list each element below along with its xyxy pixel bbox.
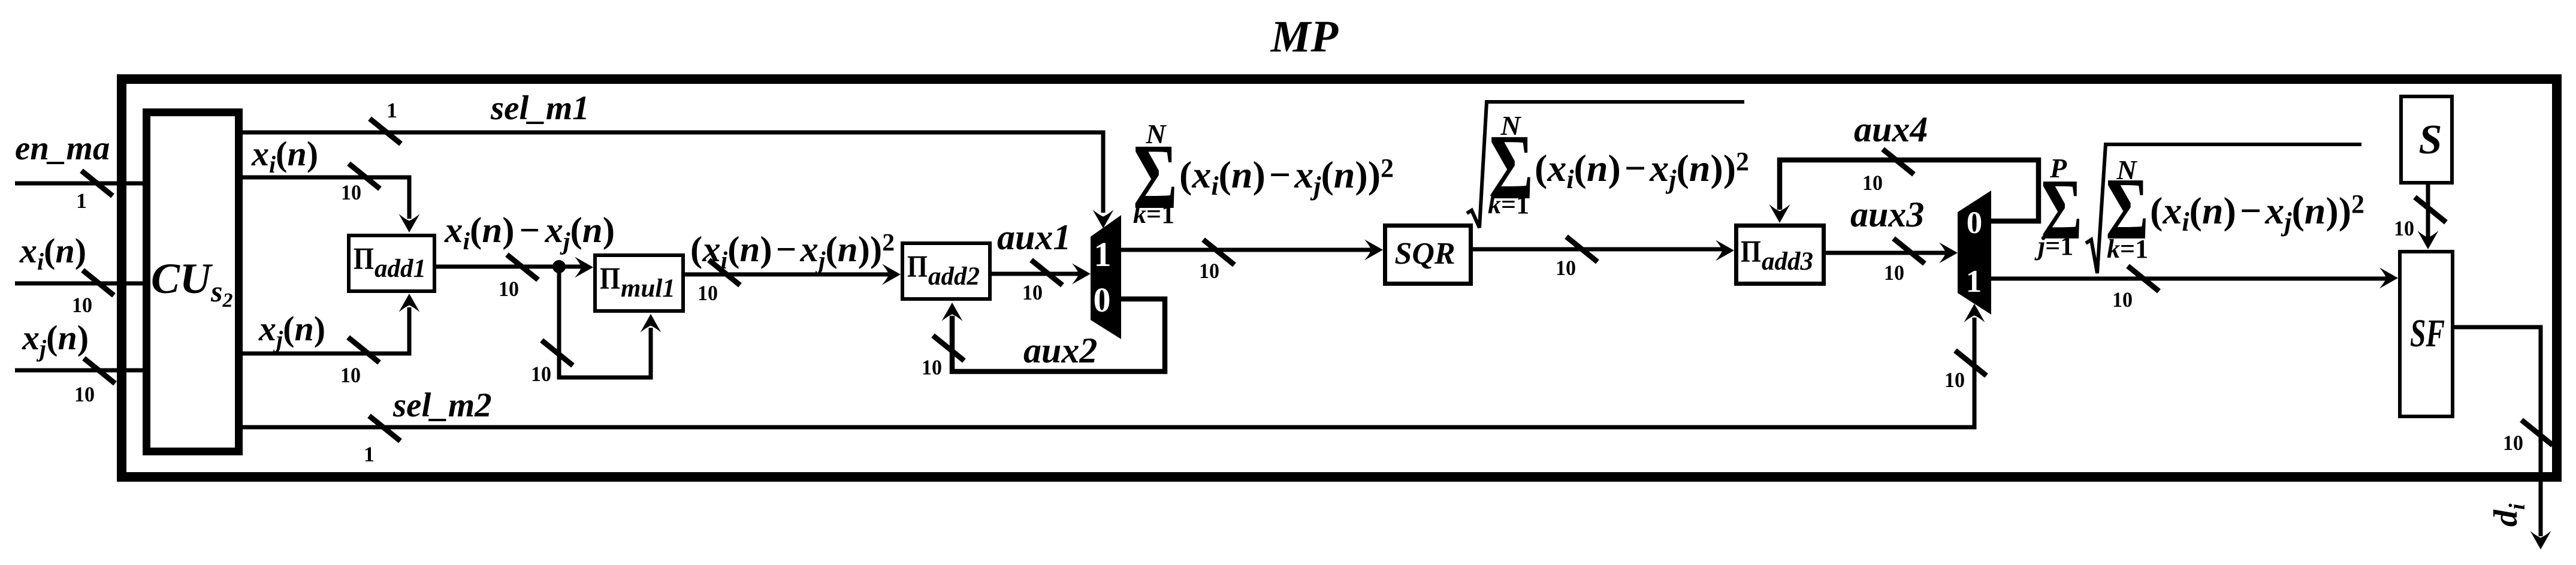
- wire d_i output from SF: [2454, 327, 2551, 549]
- svg-text:10: 10: [922, 355, 942, 379]
- svg-text:aux3: aux3: [1850, 195, 1924, 234]
- svg-text:N: N: [2116, 155, 2137, 185]
- svg-text:1: 1: [1966, 264, 1982, 299]
- label sel_m1: [490, 89, 590, 127]
- wire aux1 Pi_add2 output to demux M1: [992, 264, 1091, 285]
- wire demux M2 output 1 to SF: [1991, 268, 2398, 289]
- bus width 10 (x_j internal): [340, 363, 361, 387]
- svg-text:sel_m2: sel_m2: [392, 386, 492, 424]
- label x_j(n) internal: [258, 309, 325, 353]
- bus slash sel_m1: [370, 119, 401, 144]
- wire en_ma input: [15, 182, 146, 186]
- label (x_i(n) - x_j(n))^2: [690, 228, 895, 274]
- block S: [2401, 96, 2452, 183]
- bus width 10 (SQR output): [1556, 256, 1576, 280]
- label formula sum over j of sqrt: [2034, 144, 2364, 273]
- bus width 10 (aux4): [1862, 171, 1883, 195]
- svg-text:Π: Π: [907, 250, 928, 284]
- bus width 10 (sel_m2 vertical): [1944, 368, 1965, 392]
- svg-text:Π: Π: [600, 262, 620, 296]
- label MP title: [1270, 12, 1339, 62]
- bus width 10 (Pi_add1 output): [499, 277, 519, 301]
- label en_ma: [15, 129, 110, 167]
- svg-text:xi(n): xi(n): [19, 231, 86, 275]
- bus slash aux3: [1894, 238, 1925, 264]
- label formula sqrt of sum: [1467, 102, 1749, 228]
- label aux2: [1023, 331, 1097, 370]
- bus slash x_i input: [83, 270, 114, 295]
- bus width 10 (x_i internal): [341, 180, 361, 204]
- svg-text:xi(n): xi(n): [251, 134, 318, 178]
- label aux3: [1850, 195, 1924, 234]
- svg-text:MP: MP: [1270, 12, 1339, 62]
- wire demux M1 output 1 to SQR: [1121, 240, 1383, 261]
- bus width 1 (sel_m2): [364, 442, 375, 466]
- wire x_i(n) input: [15, 282, 146, 286]
- bus slash sel_m2 vertical: [1955, 351, 1986, 376]
- bus width 10 (Pi_mul1 output): [697, 281, 718, 305]
- bus width 10 (aux1): [1022, 280, 1043, 304]
- wire aux3 Pi_add3 output to demux M2: [1826, 243, 1958, 264]
- square-root block SQR: [1385, 226, 1471, 284]
- label x_i(n) input: [19, 231, 86, 275]
- bus width 10 (x_i input): [72, 293, 92, 317]
- bus width 10 (aux2): [922, 355, 942, 379]
- bus slash Pi_mul1 feedback: [542, 340, 573, 365]
- svg-text:10: 10: [531, 362, 551, 386]
- bus slash aux2: [933, 336, 964, 361]
- wire S to SF: [2418, 185, 2439, 249]
- svg-text:1: 1: [364, 442, 375, 466]
- wire sel_m2 from CU to demux M2 select: [239, 304, 1985, 427]
- svg-text:10: 10: [2112, 288, 2133, 312]
- wire Pi_mul1 output to Pi_add2: [685, 264, 901, 285]
- demux M2 (sel_m2): [1958, 191, 1991, 315]
- svg-text:S: S: [2419, 117, 2442, 163]
- bus width 10 (demux M1 output): [1199, 259, 1219, 283]
- subtractor Pi_add1: [349, 235, 434, 291]
- wire aux2 demux M1 output 0 back to Pi_add2: [942, 299, 1165, 371]
- svg-text:add1: add1: [375, 255, 426, 283]
- bus slash sel_m2: [369, 416, 400, 441]
- bus slash Pi_mul1 output: [709, 260, 740, 285]
- label x_j(n) input: [22, 318, 89, 362]
- wire x_i(n) CU to Pi_add1 top: [239, 177, 420, 232]
- bus slash S to SF: [2415, 197, 2446, 222]
- bus width 10 (d_i): [2503, 431, 2523, 455]
- svg-text:0: 0: [1094, 280, 1111, 319]
- bus slash demux M1 output: [1203, 240, 1234, 265]
- svg-text:N: N: [1500, 110, 1521, 141]
- bus slash d_i: [2521, 420, 2553, 445]
- svg-text:0: 0: [1967, 206, 1983, 240]
- svg-text:k=1: k=1: [1488, 190, 1529, 219]
- bus slash demux M2 output: [2128, 266, 2159, 291]
- label x_i(n) internal: [251, 134, 318, 178]
- svg-text:10: 10: [2503, 431, 2523, 455]
- svg-text:10: 10: [74, 382, 95, 406]
- svg-text:j=1: j=1: [2034, 231, 2073, 261]
- svg-text:1: 1: [1094, 235, 1112, 274]
- label x_i(n) - x_j(n): [444, 210, 615, 255]
- svg-text:SF: SF: [2410, 312, 2445, 355]
- bus width 10 (Pi_mul1 feedback): [531, 362, 551, 386]
- wire x_j(n) CU to Pi_add1 bottom: [239, 294, 420, 353]
- svg-text:10: 10: [1862, 171, 1883, 195]
- svg-text:Π: Π: [1741, 235, 1761, 269]
- svg-text:10: 10: [340, 363, 361, 387]
- control unit CU_s2: [147, 113, 239, 452]
- svg-text:sel_m1: sel_m1: [490, 89, 590, 127]
- svg-text:10: 10: [499, 277, 519, 301]
- wire aux4 demux M2 output 0 back to Pi_add3: [1769, 160, 2039, 223]
- svg-text:xi(n)−xj(n): xi(n)−xj(n): [444, 210, 615, 255]
- svg-text:en_ma: en_ma: [15, 129, 110, 167]
- svg-text:xj(n): xj(n): [22, 318, 89, 362]
- bus slash aux1: [1031, 260, 1062, 285]
- svg-text:10: 10: [1556, 256, 1576, 280]
- demux M1 (sel_m1): [1091, 215, 1121, 339]
- bus slash aux4: [1883, 149, 1914, 174]
- svg-text:xj(n): xj(n): [258, 309, 325, 353]
- bus width 10 (x_j input): [74, 382, 95, 406]
- accumulator Pi_add3: [1737, 226, 1824, 284]
- label aux1: [997, 217, 1071, 257]
- wire sel_m1 from CU to demux M1 select: [239, 132, 1114, 228]
- bus slash en_ma: [81, 171, 113, 196]
- svg-text:aux4: aux4: [1854, 110, 1928, 149]
- svg-text:add2: add2: [928, 262, 980, 291]
- bus slash x_i internal: [349, 164, 380, 189]
- svg-text:SQR: SQR: [1394, 237, 1455, 271]
- svg-text:1: 1: [386, 98, 397, 122]
- bus slash x_j input: [84, 358, 115, 383]
- bus slash x_j internal: [348, 337, 379, 362]
- svg-text:1: 1: [76, 189, 87, 213]
- svg-text:aux2: aux2: [1023, 331, 1097, 370]
- svg-text:10: 10: [341, 180, 361, 204]
- wire x_j(n) input: [15, 368, 146, 373]
- svg-text:add3: add3: [1762, 247, 1813, 276]
- svg-text:10: 10: [1884, 261, 1904, 285]
- svg-text:10: 10: [697, 281, 718, 305]
- wire SQR output to Pi_add3: [1473, 240, 1734, 261]
- junction node on Pi_add1 output: [552, 260, 566, 273]
- block SF: [2400, 252, 2453, 416]
- label sel_m2: [392, 386, 492, 424]
- label formula sum of squared differences: [1133, 119, 1394, 229]
- svg-text:10: 10: [1944, 368, 1965, 392]
- svg-text:aux1: aux1: [997, 217, 1071, 257]
- svg-text:10: 10: [72, 293, 92, 317]
- svg-text:10: 10: [2394, 216, 2414, 240]
- accumulator Pi_add2: [902, 243, 990, 299]
- bus width 10 (S to SF): [2394, 216, 2414, 240]
- svg-text:mul1: mul1: [621, 274, 675, 303]
- label d_i: [2487, 503, 2530, 527]
- wire Pi_add1 output to Pi_mul1: [436, 257, 593, 278]
- svg-text:N: N: [1145, 119, 1167, 149]
- svg-text:10: 10: [1199, 259, 1219, 283]
- svg-text:k=1: k=1: [2107, 234, 2148, 264]
- wire junction to Pi_mul1 second input: [559, 267, 662, 377]
- bus slash SQR output: [1566, 237, 1597, 262]
- svg-text:k=1: k=1: [1133, 200, 1174, 229]
- svg-text:P: P: [2049, 153, 2067, 183]
- multiplier Pi_mul1: [595, 255, 683, 311]
- bus width 1 (sel_m1): [386, 98, 397, 122]
- module MP boundary box: [122, 79, 2557, 477]
- svg-text:Π: Π: [354, 242, 374, 276]
- label aux4: [1854, 110, 1928, 149]
- bus width 1 (en_ma): [76, 189, 87, 213]
- bus width 10 (demux M2 output): [2112, 288, 2133, 312]
- bus width 10 (aux3): [1884, 261, 1904, 285]
- bus slash Pi_add1 output: [507, 255, 538, 280]
- svg-text:10: 10: [1022, 280, 1043, 304]
